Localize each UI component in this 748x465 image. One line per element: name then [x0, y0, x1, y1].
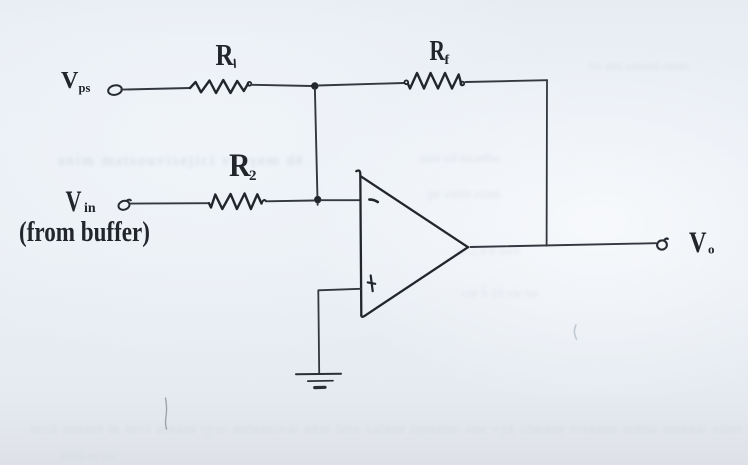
faint show-through smudges (decorative) [58, 153, 305, 170]
svg-text:V: V [66, 185, 82, 218]
svg-text:f: f [445, 53, 450, 68]
op-amp plus sign [368, 276, 375, 292]
wire feedback vertical [546, 80, 548, 246]
terminal Vps [107, 84, 122, 96]
terminal Vin [117, 199, 130, 211]
resistor Rf [404, 80, 408, 84]
terminal Vo [656, 239, 668, 251]
svg-text:V: V [61, 68, 79, 94]
svg-text:R: R [430, 35, 446, 67]
label R2 [229, 148, 257, 184]
wire noninverting input to ground corner [318, 289, 360, 373]
decorative: small scratch & curve marks [166, 398, 167, 429]
wire output [471, 243, 657, 247]
wire node A to node B vertical [315, 89, 318, 205]
wire R1 to node A [251, 85, 312, 86]
svg-text:in: in [84, 201, 96, 216]
op-amp U1 [356, 170, 468, 316]
node A junction [312, 83, 318, 89]
svg-text:2: 2 [249, 168, 257, 184]
wire node B to op-amp [321, 199, 360, 201]
op-amp minus sign [369, 200, 377, 202]
wire Vps to R1 [121, 88, 190, 90]
svg-text:(from buffer): (from buffer) [19, 217, 150, 248]
svg-text:o: o [708, 242, 715, 257]
wire Rf to top-right corner [466, 80, 548, 82]
resistor R1 [190, 80, 248, 93]
wire node A to Rf [318, 83, 404, 86]
svg-text:V: V [689, 226, 707, 259]
label Vps [61, 68, 90, 95]
label R1 [216, 37, 234, 72]
wire Vin to R2 [131, 202, 209, 204]
resistor R2 [209, 194, 262, 210]
label Vo [689, 226, 715, 259]
wire R2 to op-amp [266, 200, 314, 203]
node B junction at inverting input [315, 197, 321, 203]
label Vin [66, 185, 96, 218]
svg-text:ps: ps [79, 81, 91, 95]
svg-text:R: R [216, 37, 234, 72]
label Rf [430, 35, 450, 68]
ground [296, 374, 341, 388]
